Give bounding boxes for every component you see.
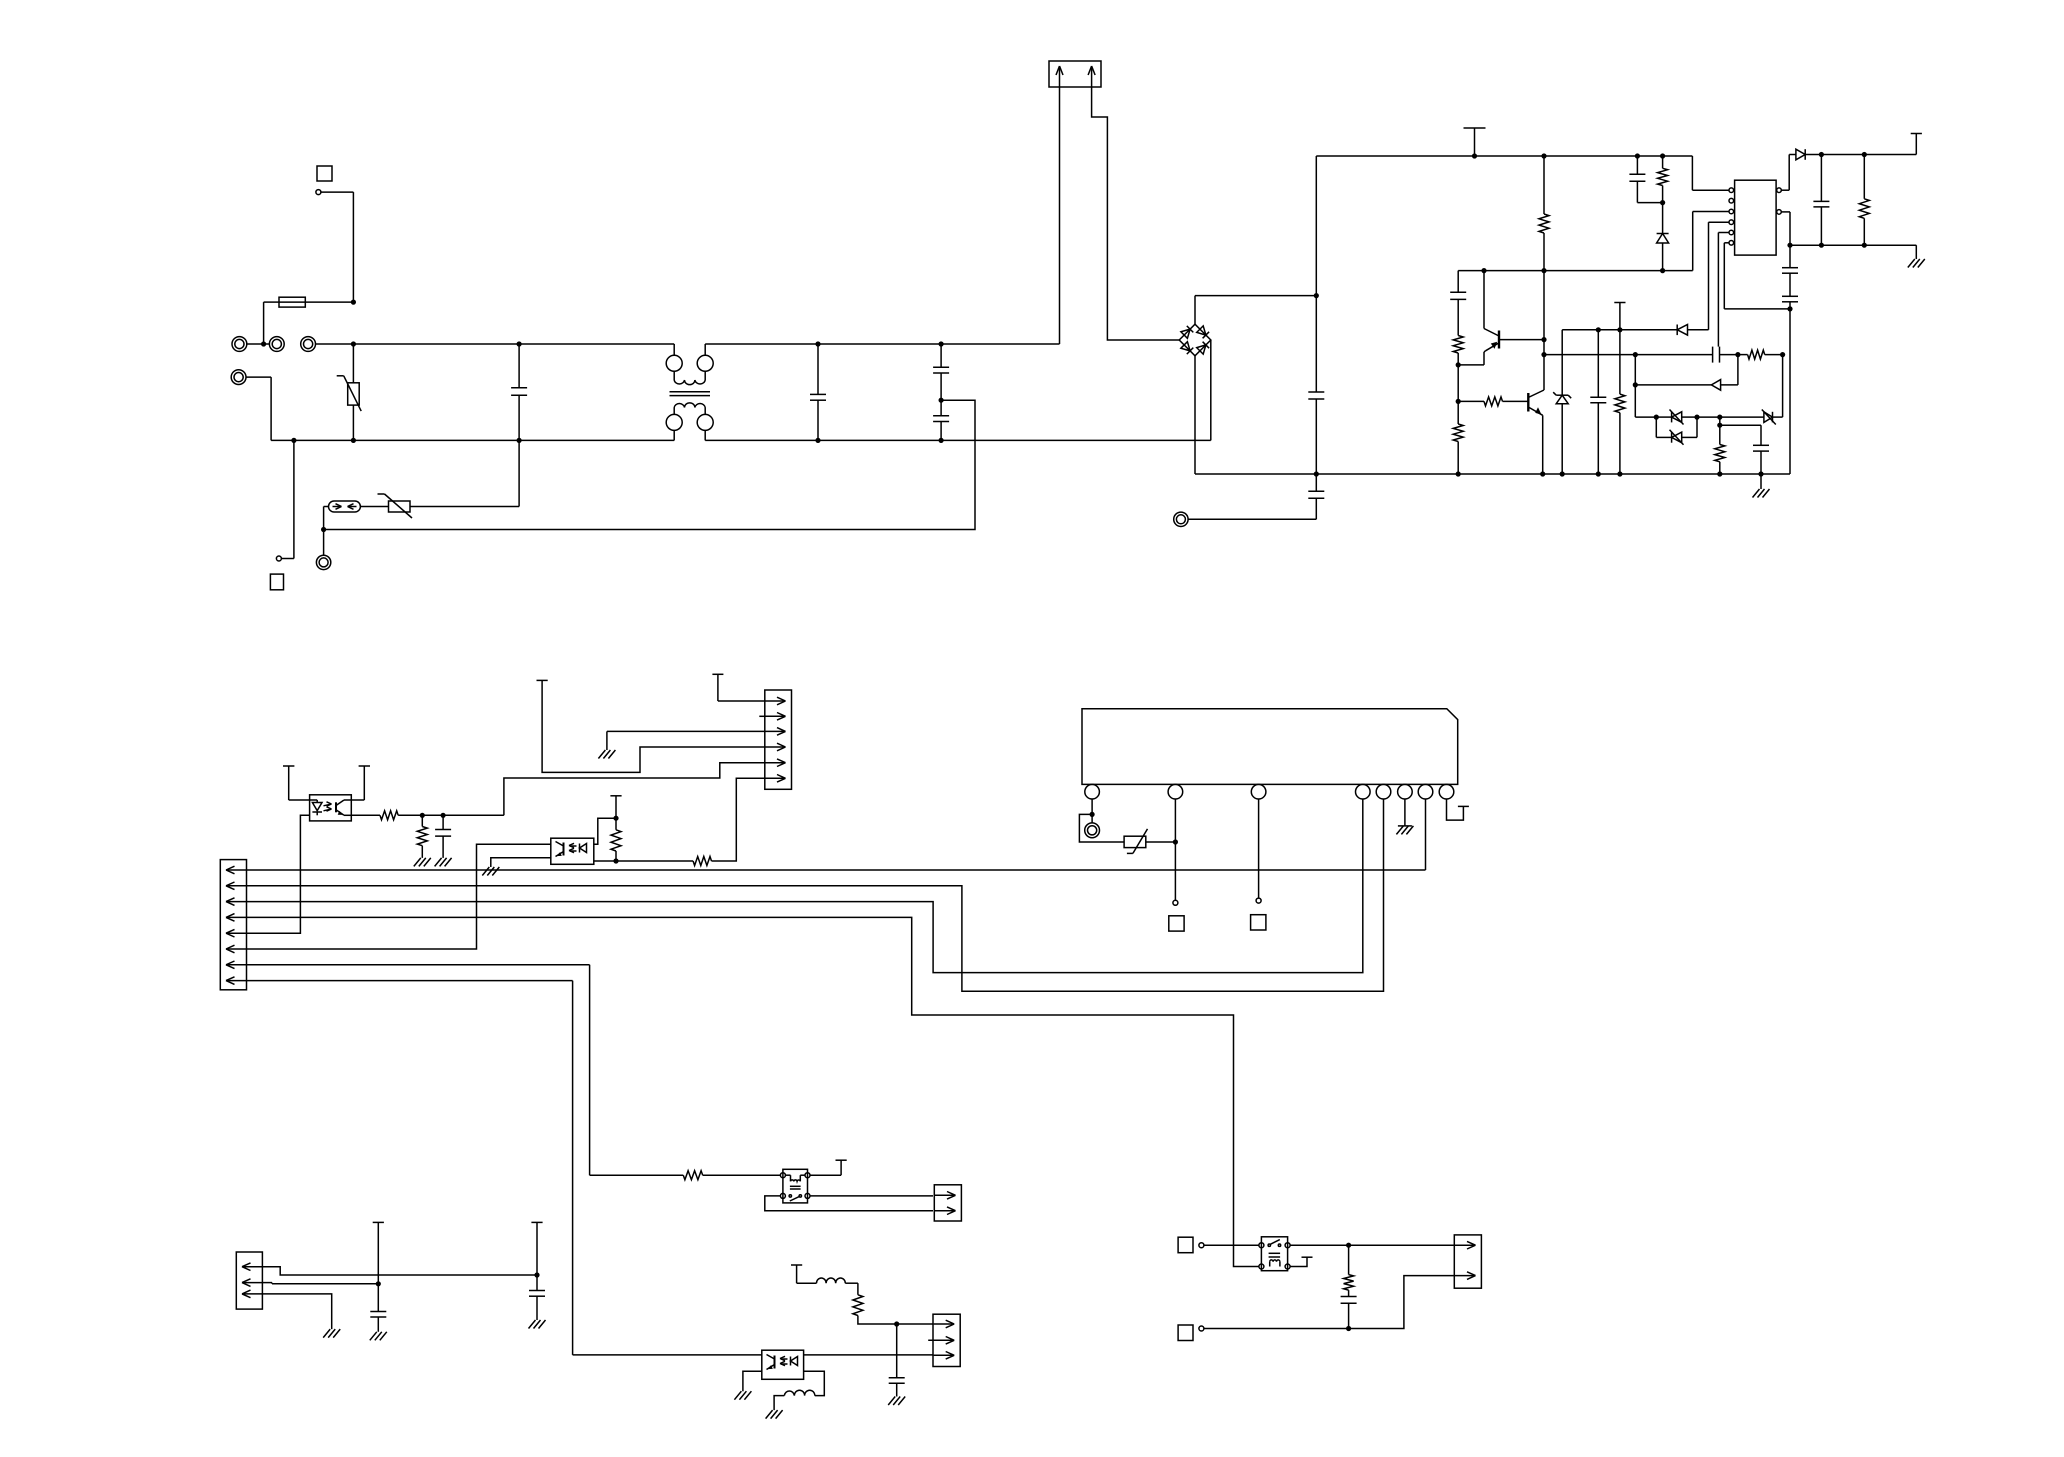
IC U101 pin L4 bbox=[1729, 220, 1734, 225]
resistor R101 bbox=[1539, 156, 1549, 271]
wire IC pin5 link bbox=[1718, 233, 1729, 347]
terminal SWa (small circle) bbox=[1199, 1243, 1204, 1248]
connector CN202 (6-pin) bbox=[765, 690, 792, 789]
junction C112 bottom bbox=[1819, 243, 1824, 248]
CN205 pin2 arrow bbox=[1455, 1272, 1476, 1280]
junction R203 bottom bbox=[613, 858, 618, 863]
ground GND11 bbox=[323, 1329, 340, 1338]
junction feedback node bbox=[1541, 352, 1546, 357]
wire Vcc return rail bbox=[1790, 244, 1916, 246]
junction diode pair left bbox=[1654, 415, 1659, 420]
wire U201 pin7 route bbox=[246, 799, 1425, 870]
thermistor TH201 bbox=[1124, 829, 1147, 854]
wire VP11 to L201 bbox=[797, 1265, 817, 1283]
junction R107 left bbox=[1735, 352, 1740, 357]
wire PC203 out to CN204 pin3 bbox=[804, 1354, 933, 1356]
resistor R207 bbox=[1344, 1245, 1354, 1296]
wire CN201 pin4 route to relay bbox=[246, 917, 1259, 1266]
ground GND13 bbox=[529, 1320, 546, 1329]
wire startup line y270 bbox=[1458, 270, 1693, 272]
wire R107 to D105 bbox=[1782, 355, 1784, 418]
diode D104a bbox=[1656, 410, 1697, 425]
wire U201 pin2 down bbox=[1174, 799, 1176, 900]
relay U202 box bbox=[783, 1169, 808, 1203]
wire U201 pin8 power bbox=[1447, 799, 1464, 820]
wire K201 BR to VP12 bbox=[1290, 1257, 1307, 1266]
wire varistor column upper bbox=[352, 344, 354, 383]
junction y384.9 bbox=[1633, 382, 1638, 387]
module U201 pin 7 bbox=[1418, 784, 1433, 799]
wire D103 to feedback bbox=[1721, 355, 1738, 385]
wire to D105 bbox=[1720, 416, 1764, 418]
wire CN202 pin6 route bbox=[712, 778, 766, 861]
junction pin2 column bbox=[1173, 839, 1178, 844]
terminal E (earth, double circle) bbox=[316, 555, 330, 569]
IC U101 pin R2 bbox=[1777, 210, 1782, 215]
wire PC201 emitter bbox=[351, 814, 380, 816]
ground GND1 bbox=[1753, 489, 1770, 498]
choke L101 stub BL bbox=[673, 430, 675, 440]
CN201 pin 1 arrow bbox=[226, 866, 246, 874]
connector CN101 pin N (double circle) bbox=[231, 370, 246, 385]
junction C111 bottom bbox=[1758, 471, 1763, 476]
terminal pin2 (small circle) bbox=[1173, 900, 1178, 905]
junction ZD101 bottom bbox=[1560, 471, 1565, 476]
wire R206 to CN204 pin1 bbox=[858, 1316, 933, 1325]
capacitor C109 bbox=[1590, 330, 1606, 474]
junction neutral branch bbox=[291, 438, 296, 443]
wire U201 pin6 gnd bbox=[1404, 799, 1406, 826]
CN204 pin2 arrow bbox=[928, 1337, 954, 1345]
CN206 pin2 arrow bbox=[242, 1279, 262, 1287]
IC U101 pin L3 bbox=[1729, 209, 1734, 214]
resistor R106 bbox=[1615, 330, 1625, 474]
resistor R205 bbox=[683, 1171, 702, 1180]
wire arrester to varistor bbox=[360, 506, 388, 508]
CN201 pin 8 arrow bbox=[226, 977, 246, 985]
wire R201 to nodes bbox=[398, 814, 504, 816]
wire V+ column upper bbox=[1315, 156, 1317, 392]
wire VP7 to CN202 pin1 bbox=[718, 674, 765, 701]
CN201 pin 7 arrow bbox=[226, 961, 246, 969]
connector CN203 (2-pin) bbox=[934, 1185, 961, 1221]
junction VP1 bbox=[1472, 153, 1477, 158]
junction RC node bbox=[1717, 415, 1722, 420]
capacitor C112 bbox=[1813, 155, 1829, 246]
CN201 pin 2 arrow bbox=[226, 882, 246, 890]
wire to D101 bbox=[1662, 203, 1664, 234]
node pin2 square marker bbox=[1169, 916, 1184, 931]
optocoupler PC203 box bbox=[762, 1350, 804, 1379]
wire U201 pin4 route bbox=[246, 799, 1362, 973]
junction pin2 at C204 bbox=[376, 1281, 381, 1286]
junction pin1 node bbox=[1090, 812, 1095, 817]
choke L101 terminal circle TR bbox=[697, 355, 713, 371]
wire U202 TR to VP10 bbox=[810, 1160, 841, 1175]
junction Q101 base bbox=[1541, 337, 1546, 342]
capacitor C103 mid lead bbox=[940, 373, 942, 400]
wire AC neutral entry bbox=[246, 377, 271, 440]
node pin3 square marker bbox=[1251, 915, 1266, 930]
wire PC202 emitter bbox=[594, 860, 693, 862]
module U201 pin 1 bbox=[1085, 784, 1100, 799]
wire CN201 pin7 route bbox=[246, 965, 589, 1175]
IC U101 (PWM controller) bbox=[1735, 180, 1777, 255]
wire PC203 emitter to ground bbox=[743, 1371, 762, 1391]
resistor R104 bbox=[1453, 401, 1463, 474]
wire branch y384.9 bbox=[1634, 355, 1636, 418]
wire bridge AC right to neutral bbox=[1210, 340, 1212, 440]
zener ZD101 bbox=[1553, 330, 1571, 474]
diode D102 bbox=[1677, 325, 1687, 336]
CN206 pin1 arrow bbox=[242, 1263, 262, 1271]
optocoupler PC203 LED bbox=[791, 1357, 798, 1366]
wire bridge + output bbox=[1195, 296, 1316, 325]
CN201 pin 4 arrow bbox=[226, 914, 246, 922]
wire aux rail y330 bbox=[1562, 329, 1677, 331]
wire L202 to ground bbox=[774, 1396, 784, 1411]
wire PC202 pin to ground bbox=[491, 858, 551, 867]
junction R101 bottom bbox=[1541, 268, 1546, 273]
junction diode pair right bbox=[1694, 415, 1699, 420]
wire C110 to R107 bbox=[1720, 354, 1738, 356]
wire emitter net to CN202 pin5 bbox=[504, 763, 765, 816]
optocoupler PC202 transistor bbox=[556, 842, 564, 857]
transistor Q101 (PNP) bbox=[1484, 271, 1544, 365]
relay K201 pin TL bbox=[1259, 1243, 1264, 1248]
junction Q102 emitter rail bbox=[1540, 471, 1545, 476]
power symbol VP8 bbox=[537, 679, 548, 681]
wire CN202 pin3 to ground bbox=[607, 731, 765, 750]
wire bridge - output / main negative rail bbox=[1195, 356, 1790, 474]
wire IC pinR2 down bbox=[1781, 212, 1790, 245]
resistor R109 bbox=[1859, 155, 1869, 246]
resistor R203 bbox=[611, 818, 621, 861]
power symbol VP10 bbox=[836, 1159, 847, 1161]
junction C107 top bbox=[1635, 153, 1640, 158]
IC U101 pin L2 bbox=[1729, 198, 1734, 203]
module U201 pin 2 bbox=[1168, 784, 1183, 799]
bridge diode D-TR bbox=[1197, 326, 1209, 338]
optocoupler PC202 box bbox=[551, 838, 594, 864]
choke L101 terminal circle BL bbox=[666, 414, 682, 430]
module U201 pin 8 bbox=[1439, 784, 1454, 799]
junction C102 bottom bbox=[815, 438, 820, 443]
resistor R105 (Q102 base) bbox=[1458, 397, 1528, 406]
wire CN206 pin1 route bbox=[262, 1267, 537, 1275]
capacitor C106 leads bbox=[1188, 474, 1316, 519]
choke L101 stub TL bbox=[673, 344, 675, 355]
power symbol VP12 bbox=[1302, 1256, 1313, 1258]
IC U101 pin L6 bbox=[1729, 241, 1734, 246]
connector CN205 (2-pin) bbox=[1454, 1235, 1481, 1288]
power symbol VP7 bbox=[712, 673, 723, 675]
choke L101 stub BR bbox=[704, 430, 706, 440]
wire Vcc line bbox=[1805, 154, 1916, 156]
wire arrester left lead bbox=[324, 507, 329, 556]
choke L101 terminal circle TL bbox=[666, 355, 682, 371]
resistor R206 bbox=[853, 1295, 863, 1316]
wire CN101-L to switch bbox=[247, 343, 270, 345]
surge arrester DSA1 bbox=[329, 501, 361, 512]
bridge diode D-BR bbox=[1197, 342, 1209, 354]
wire RC drop bbox=[1719, 417, 1721, 425]
power symbol VP2 bbox=[1614, 303, 1625, 330]
wire sense column to rail bbox=[1789, 309, 1791, 474]
wire CN102 pin1 with arrow bbox=[1056, 66, 1063, 344]
capacitor C205 bbox=[529, 1222, 545, 1320]
diode D103 (triangle) bbox=[1711, 380, 1720, 391]
junction feedback branch bbox=[1633, 352, 1638, 357]
CN202 pin 5 arrow bbox=[765, 759, 786, 767]
node SW square marker B bbox=[1178, 1325, 1193, 1341]
power symbol VP1 bbox=[1464, 128, 1486, 156]
junction C105 bottom rail bbox=[1314, 471, 1319, 476]
junction C109 top bbox=[1596, 327, 1601, 332]
wire U201 pin5 route bbox=[246, 799, 1383, 991]
capacitor C108 bbox=[1450, 271, 1466, 336]
ground GND2 stub bbox=[1915, 245, 1917, 259]
module U201 pin 4 bbox=[1356, 784, 1371, 799]
choke L101 lower winding bbox=[674, 403, 705, 415]
power symbol VP13 bbox=[373, 1221, 384, 1223]
wire pin1 to thermistor bbox=[1079, 814, 1124, 842]
wire IC pin1 link bbox=[1692, 156, 1729, 190]
junction snubber bottom bbox=[1346, 1326, 1351, 1331]
wire to terminal TP2 bbox=[281, 440, 294, 558]
junction arrester bottom bbox=[321, 527, 326, 532]
diode D106 bbox=[1796, 149, 1805, 160]
wire y384.9 to triangle bbox=[1635, 384, 1711, 386]
wire Y-cap midpoint loop bbox=[324, 400, 975, 529]
junction C104 bottom bbox=[939, 438, 944, 443]
CN202 pin 3 arrow bbox=[765, 728, 786, 736]
wire CN201 pin8 route bbox=[246, 981, 761, 1355]
wire PC201 cathode to CN201 pin5 bbox=[246, 815, 309, 933]
ground GND12 bbox=[370, 1332, 387, 1341]
varistor ZNR1 bbox=[337, 376, 362, 411]
junction R102 top bbox=[1660, 153, 1665, 158]
inductor L201 bbox=[817, 1278, 846, 1283]
junction R106 bottom bbox=[1617, 471, 1622, 476]
power symbol VP9 bbox=[610, 796, 621, 818]
ground GND7 bbox=[482, 867, 499, 876]
wire emitter node to base node bbox=[1457, 365, 1459, 402]
CN204 pin1 arrow bbox=[934, 1320, 955, 1328]
optocoupler PC201 transistor bbox=[336, 800, 351, 815]
module U201 pin 6 bbox=[1398, 784, 1413, 799]
junction R101 top bbox=[1541, 153, 1546, 158]
ground GND4 bbox=[414, 858, 431, 867]
terminal pin3 (small circle) bbox=[1256, 898, 1261, 903]
capacitor C204 bbox=[370, 1222, 386, 1331]
connector CN201 (8-pin) bbox=[220, 860, 246, 990]
resistor R102 bbox=[1658, 156, 1668, 203]
capacitor C101 plates bbox=[511, 388, 527, 395]
junction R203 top bbox=[613, 816, 618, 821]
capacitor C103 upper lead bbox=[940, 344, 942, 367]
wire AC neutral bottom rail bbox=[271, 439, 674, 441]
wire thermistor to pin2 column bbox=[1146, 841, 1176, 843]
terminal DCOUT (double circle) bbox=[1174, 512, 1188, 526]
relay K201 coil bbox=[1269, 1253, 1281, 1266]
junction C202 top bbox=[894, 1321, 899, 1326]
wire D102 to IC pin4 bbox=[1688, 222, 1730, 330]
junction R109 bottom bbox=[1862, 243, 1867, 248]
wire AC live after choke bbox=[705, 343, 1059, 345]
wire L201 to R206 bbox=[845, 1283, 858, 1295]
diode D101 bbox=[1657, 234, 1669, 244]
capacitor C114 bbox=[1782, 296, 1798, 309]
relay U202 switch bbox=[789, 1195, 801, 1201]
junction bridge+ at C105 bbox=[1314, 293, 1319, 298]
choke L101 upper winding bbox=[674, 371, 705, 384]
transistor Q102 (NPN) bbox=[1528, 390, 1544, 474]
CN203 pin2 arrow bbox=[935, 1207, 956, 1215]
module U201 pin 5 bbox=[1376, 784, 1391, 799]
CN201 pin 5 arrow bbox=[226, 929, 246, 937]
CN202 pin 2 arrow bbox=[765, 713, 786, 721]
resistor R201 bbox=[380, 811, 398, 820]
relay K201 pin BL bbox=[1259, 1264, 1264, 1269]
wire pair to RC node bbox=[1697, 416, 1720, 418]
ground GND1 stub bbox=[1760, 474, 1762, 489]
capacitor C104 plates bbox=[933, 416, 949, 422]
relay K201 box bbox=[1261, 1237, 1287, 1271]
terminal FG (double circle) bbox=[1085, 814, 1100, 837]
power symbol VP4 bbox=[1458, 805, 1469, 807]
optocoupler PC201 arrows bbox=[324, 802, 332, 811]
module U201 (hybrid regulator) bbox=[1082, 709, 1458, 785]
wire varistor column lower bbox=[352, 405, 354, 440]
wire R205 to U202 bbox=[703, 1174, 781, 1176]
power symbol VP5 bbox=[283, 765, 294, 767]
ground GND2 bbox=[1908, 259, 1925, 268]
wire CN206 pin3 to ground bbox=[262, 1294, 331, 1329]
junction pinR2 node bbox=[1787, 243, 1792, 248]
switch terminal SW1b (double circle) bbox=[301, 337, 316, 352]
connector CN102 (line output) bbox=[1049, 61, 1101, 87]
wire CN206 pin2 route bbox=[262, 1283, 378, 1284]
wire PC202 led-anode to CN201 pin6 bbox=[246, 844, 550, 949]
junction varistor bottom bbox=[351, 438, 356, 443]
varistor ZNR2 bbox=[378, 494, 413, 518]
relay K201 pin TR bbox=[1285, 1243, 1290, 1248]
wire PC201 anode to VP5 bbox=[289, 766, 310, 800]
optocoupler PC202 arrows bbox=[569, 843, 577, 852]
switch terminal SW1a (double circle) bbox=[269, 337, 284, 352]
wire U201 pin1 down bbox=[1091, 799, 1093, 814]
junction C109 bottom bbox=[1596, 471, 1601, 476]
capacitor C203 bbox=[1341, 1297, 1357, 1329]
capacitor C105 (bulk) plates bbox=[1308, 392, 1324, 399]
diode D104b parallel branch bbox=[1656, 417, 1697, 445]
junction R104 bottom bbox=[1456, 471, 1461, 476]
wire fuse right lead bbox=[305, 301, 353, 303]
junction Q101 emitter node bbox=[1456, 362, 1461, 367]
module U201 pin 3 bbox=[1251, 784, 1266, 799]
terminal SWb (small circle) bbox=[1199, 1326, 1204, 1331]
wire U201 pin3 down bbox=[1258, 799, 1260, 898]
wire row7 to R205 bbox=[590, 1174, 684, 1176]
wire AC neutral after choke bbox=[705, 439, 1211, 441]
junction varistor top bbox=[351, 341, 356, 346]
ground GND5 bbox=[435, 858, 452, 867]
capacitor C106 plates bbox=[1308, 491, 1324, 498]
resistor R107 bbox=[1738, 350, 1783, 359]
connector CN101 pin L (double circle) bbox=[232, 337, 247, 352]
capacitor C107 bbox=[1629, 156, 1662, 203]
power symbol VP11 bbox=[791, 1264, 802, 1266]
optocoupler PC203 arrows bbox=[780, 1356, 788, 1365]
junction pin6 node bbox=[1787, 306, 1792, 311]
wire U202 BL loop bbox=[765, 1196, 933, 1211]
capacitor C111 bbox=[1720, 425, 1769, 474]
junction snubber top bbox=[1346, 1243, 1351, 1248]
wire U202 BR to CN203 bbox=[810, 1195, 933, 1197]
wire SWa to relay bbox=[1204, 1244, 1259, 1246]
ground GND10 bbox=[766, 1410, 783, 1419]
IC U101 pin R1 bbox=[1777, 188, 1782, 193]
relay K201 contact bbox=[1268, 1240, 1281, 1247]
wire AC live: SW1b to choke bbox=[316, 343, 675, 345]
junction C101 bottom bbox=[517, 438, 522, 443]
resistor R204 bbox=[693, 857, 711, 866]
wire fuse left lead bbox=[264, 302, 279, 344]
junction R202 top bbox=[420, 813, 425, 818]
bridge diode D-TL bbox=[1181, 326, 1193, 338]
optocoupler PC203 transistor bbox=[767, 1355, 775, 1370]
wire IC pin6 link bbox=[1724, 243, 1790, 309]
optocoupler PC201 LED bbox=[310, 800, 322, 815]
choke L101 stub TR bbox=[704, 344, 706, 355]
wire PC202 collector up bbox=[594, 818, 616, 844]
wire PC201 collector to VP6 bbox=[351, 766, 364, 800]
relay U202 pin BR bbox=[805, 1193, 810, 1198]
capacitor C101 (X-cap) top lead bbox=[518, 344, 520, 388]
resistor R103 bbox=[1453, 336, 1463, 365]
inductor L202 bbox=[784, 1390, 815, 1395]
capacitor C104 leads bbox=[940, 400, 942, 440]
wire V+ column lower bbox=[1315, 399, 1317, 474]
capacitor C102 plates bbox=[810, 394, 826, 400]
junction C102 top bbox=[815, 341, 820, 346]
capacitor C103 plates bbox=[933, 367, 949, 373]
CN202 pin 1 arrow bbox=[765, 697, 786, 705]
CN201 pin 6 arrow bbox=[226, 945, 246, 953]
junction fuse branch bbox=[261, 341, 266, 346]
terminal TP1 bbox=[316, 190, 321, 195]
relay U202 coil bbox=[785, 1175, 805, 1189]
capacitor C201 bbox=[435, 815, 451, 858]
power symbol VP3 bbox=[1911, 134, 1922, 155]
terminal TP2 bbox=[276, 556, 281, 561]
bridge rectifier DB101 diamond bbox=[1179, 324, 1211, 356]
wire main positive rail bbox=[1316, 155, 1692, 157]
capacitor C102 bottom lead bbox=[817, 400, 819, 440]
node TP2 square marker bbox=[270, 574, 283, 590]
wire feedback to C110 bbox=[1544, 354, 1713, 356]
junction C103/C104 mid bbox=[939, 398, 944, 403]
CN202 pin 6 arrow bbox=[765, 775, 786, 783]
relay U202 pin TR bbox=[805, 1173, 810, 1178]
junction C101 top bbox=[517, 341, 522, 346]
capacitor C202 bbox=[889, 1324, 905, 1397]
junction D101 bottom bbox=[1660, 268, 1665, 273]
CN205 pin1 arrow bbox=[1455, 1241, 1476, 1249]
optocoupler PC202 LED bbox=[580, 844, 587, 853]
power symbol VP6 bbox=[359, 765, 370, 767]
